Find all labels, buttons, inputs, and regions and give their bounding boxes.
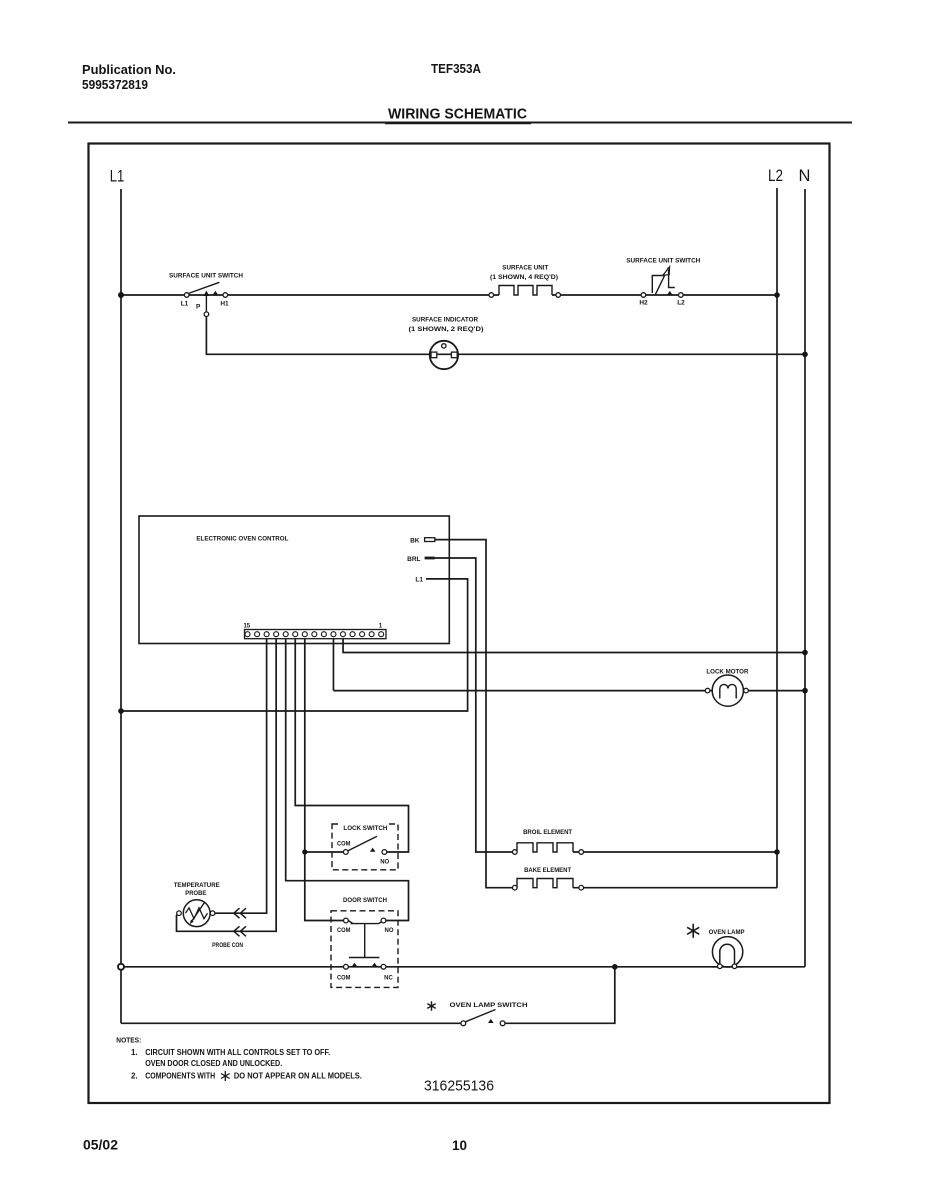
svg-text:H1: H1 <box>220 301 229 308</box>
svg-text:COM: COM <box>337 928 351 934</box>
wire through oven lamp <box>712 966 743 968</box>
svg-text:L1: L1 <box>110 168 125 186</box>
wire pin6 lock motor row <box>332 639 334 691</box>
svg-text:CIRCUIT SHOWN WITH ALL CONTROL: CIRCUIT SHOWN WITH ALL CONTROLS SET TO O… <box>145 1048 330 1057</box>
lock switch dashed enclosure <box>332 824 398 870</box>
svg-text:OVEN LAMP: OVEN LAMP <box>709 929 746 936</box>
terminal BK spade <box>425 538 435 542</box>
terminal left of broil element <box>513 850 518 855</box>
svg-text:WIRING SCHEMATIC: WIRING SCHEMATIC <box>388 107 527 123</box>
svg-text:10: 10 <box>452 1137 467 1153</box>
wire pin9 branch to lock switch COM <box>305 851 346 853</box>
terminal strip of EOC <box>245 630 387 639</box>
door switch lower contact triangle left <box>352 963 358 967</box>
terminal right of bake element <box>579 885 584 890</box>
door switch dashed enclosure <box>331 911 398 988</box>
wire L1 feed from rail <box>121 579 468 711</box>
svg-text:L2: L2 <box>768 167 783 185</box>
surface unit heating element <box>499 286 552 296</box>
terminal BRL spade <box>425 557 435 560</box>
wire broil element to L2 <box>573 851 777 853</box>
svg-text:5995372819: 5995372819 <box>82 77 148 92</box>
lock switch arm <box>348 836 377 850</box>
terminal right of broil element <box>579 850 584 855</box>
probe connector chevrons top <box>234 908 246 918</box>
electronic oven control box U1 <box>139 516 449 644</box>
lock motor m winding <box>720 684 736 698</box>
wire BRL to broil element <box>435 558 513 852</box>
probe connector chevrons bottom <box>234 926 246 936</box>
node lock/door COM junction <box>302 849 307 854</box>
terminal COM of lock switch <box>343 850 348 855</box>
door switch lower contact triangle right <box>372 963 378 967</box>
header rule <box>68 122 852 124</box>
terminal left of bake element <box>513 885 518 890</box>
svg-text:H2: H2 <box>639 300 648 307</box>
svg-text:SURFACE INDICATOR: SURFACE INDICATOR <box>412 317 478 324</box>
wire oven lamp switch to lamp row <box>503 967 615 1024</box>
terminal strip pins <box>245 632 384 637</box>
wire pin5 to N <box>343 639 805 653</box>
svg-text:Publication No.: Publication No. <box>82 62 176 77</box>
wire L2 rail <box>776 188 778 888</box>
node L1 oven-control feed junction <box>118 708 124 714</box>
svg-text:L2: L2 <box>677 300 685 307</box>
svg-text:L1: L1 <box>181 301 189 308</box>
svg-text:SURFACE UNIT SWITCH: SURFACE UNIT SWITCH <box>626 258 700 265</box>
temperature probe arrow <box>192 903 205 922</box>
oven lamp switch asterisk <box>431 1001 433 1011</box>
svg-text:SURFACE UNIT: SURFACE UNIT <box>502 265 548 272</box>
node L2 row1 junction <box>774 292 780 298</box>
door switch upper contact left tick <box>348 921 353 924</box>
terminal P of S1 <box>204 312 209 317</box>
wire BK to bake element <box>435 540 513 888</box>
svg-text:COMPONENTS WITH: COMPONENTS WITH <box>145 1071 215 1080</box>
switch S2 contact triangle <box>667 291 673 295</box>
wire pin12 to probe return <box>177 639 277 932</box>
svg-text:OVEN DOOR CLOSED AND UNLOCKED.: OVEN DOOR CLOSED AND UNLOCKED. <box>145 1059 282 1068</box>
note 2 asterisk <box>224 1071 226 1081</box>
switch S1 arm <box>189 282 220 293</box>
svg-text:PROBE: PROBE <box>185 890 207 897</box>
svg-text:316255136: 316255136 <box>424 1077 494 1094</box>
terminal left of oven lamp <box>718 964 723 969</box>
terminal NO of door switch <box>381 918 386 923</box>
svg-text:NO: NO <box>385 928 394 934</box>
svg-text:NO: NO <box>380 859 389 865</box>
node L2 broil junction <box>774 849 780 855</box>
oven lamp body E1 <box>712 937 742 967</box>
border frame of schematic <box>89 144 830 1104</box>
temperature probe body RT1 <box>183 900 210 927</box>
svg-text:DO NOT APPEAR ON ALL MODELS.: DO NOT APPEAR ON ALL MODELS. <box>234 1071 362 1080</box>
wire pin13 to probe <box>215 639 267 914</box>
surface indicator left contact square <box>431 352 437 358</box>
svg-text:NOTES:: NOTES: <box>116 1036 141 1045</box>
wire bake element to L2 <box>573 887 777 889</box>
terminal COM upper of door switch <box>344 918 349 923</box>
svg-text:COM: COM <box>337 842 351 848</box>
svg-text:P: P <box>196 304 201 311</box>
svg-text:05/02: 05/02 <box>83 1137 118 1153</box>
wire pin9 to door switch COM <box>305 639 346 921</box>
door switch upper contact right tick <box>379 921 384 924</box>
switch S2 diagonal arm <box>656 268 669 295</box>
svg-text:OVEN LAMP SWITCH: OVEN LAMP SWITCH <box>450 1002 528 1009</box>
terminal COM lower of door switch <box>344 964 349 969</box>
wire pin11 to door switch NO <box>286 639 409 921</box>
oven lamp switch arm <box>465 1010 495 1022</box>
svg-text:N: N <box>799 167 811 185</box>
terminal right of lock motor <box>744 688 749 693</box>
switch S2 bracket <box>652 276 664 294</box>
temperature probe resistor zigzag <box>186 908 208 919</box>
node N lock motor row junction <box>802 688 808 694</box>
svg-text:TEF353A: TEF353A <box>431 61 482 76</box>
wire N rail <box>804 189 806 967</box>
terminal right of probe <box>210 911 215 916</box>
node L1 bottom row ring <box>118 964 124 970</box>
wire L1 rail to oven lamp switch <box>121 1022 463 1024</box>
svg-text:BROIL ELEMENT: BROIL ELEMENT <box>523 829 572 836</box>
switch S1 contact triangle <box>213 291 219 295</box>
terminal left of lock motor <box>705 688 710 693</box>
svg-text:(1 SHOWN, 4 REQ'D): (1 SHOWN, 4 REQ'D) <box>490 274 558 281</box>
svg-text:BK: BK <box>410 538 420 545</box>
wire main bottom row L1 to N <box>121 966 805 968</box>
terminal right of oven lamp switch <box>500 1021 505 1026</box>
terminal NC of door switch <box>381 964 386 969</box>
svg-text:NC: NC <box>384 976 393 982</box>
svg-text:1.: 1. <box>131 1048 138 1057</box>
wire L1 rail <box>120 189 122 1023</box>
svg-text:15: 15 <box>243 624 250 630</box>
svg-text:DOOR SWITCH: DOOR SWITCH <box>343 898 387 904</box>
svg-text:COM: COM <box>337 976 351 982</box>
surface indicator right contact square <box>451 352 457 358</box>
switch S1 wiper arrow shaft <box>205 294 207 313</box>
node L1 row1 junction <box>118 292 124 298</box>
terminal right of oven lamp <box>732 964 737 969</box>
svg-text:TEMPERATURE: TEMPERATURE <box>174 882 221 889</box>
terminal L2 of S2 <box>679 293 684 298</box>
svg-text:2.: 2. <box>131 1071 138 1080</box>
oven lamp switch contact triangle <box>488 1019 494 1023</box>
terminal NO of lock switch <box>382 850 387 855</box>
bake element heater <box>517 879 573 888</box>
wire surface-unit row left <box>121 294 499 296</box>
surface indicator inner circle <box>442 344 446 348</box>
node N indicator row junction <box>802 352 808 358</box>
wire pin10 to lock switch NO <box>295 639 408 852</box>
svg-text:(1 SHOWN, 2 REQ'D): (1 SHOWN, 2 REQ'D) <box>409 326 484 333</box>
oven lamp filament loop <box>720 944 735 964</box>
svg-text:SURFACE UNIT SWITCH: SURFACE UNIT SWITCH <box>169 273 243 280</box>
node lamp switch junction <box>612 964 618 970</box>
door switch upper contact bar <box>351 923 379 925</box>
terminal H1 of S1 <box>223 293 228 298</box>
lock switch contact triangle <box>370 848 376 852</box>
svg-text:ELECTRONIC OVEN CONTROL: ELECTRONIC OVEN CONTROL <box>196 536 288 543</box>
broil element heater <box>517 843 573 852</box>
switch S1 wiper arrowhead <box>204 291 210 296</box>
terminal H2 of S2 <box>641 293 646 298</box>
terminal left of probe <box>177 911 182 916</box>
lock motor M1 body <box>712 675 743 706</box>
switch S2 hollow arrowhead <box>663 267 670 276</box>
terminal right of surface unit <box>556 293 561 298</box>
switch S2 step contact <box>669 270 675 288</box>
svg-text:PROBE CON: PROBE CON <box>212 942 243 949</box>
wire P drop and surface-indicator row <box>206 314 805 354</box>
surface indicator lamp body <box>430 341 458 369</box>
svg-text:L1: L1 <box>415 577 423 584</box>
wire surface-unit row right <box>552 294 777 296</box>
svg-text:BRL: BRL <box>407 556 420 563</box>
lock switch label background <box>341 822 389 832</box>
svg-text:LOCK SWITCH: LOCK SWITCH <box>343 826 387 832</box>
terminal left of oven lamp switch <box>461 1021 466 1026</box>
door switch plunger shaft <box>364 924 366 958</box>
svg-text:BAKE ELEMENT: BAKE ELEMENT <box>524 867 571 874</box>
door switch plunger bar <box>349 957 380 959</box>
oven lamp asterisk <box>692 924 694 938</box>
node N pin5 row junction <box>802 650 808 656</box>
terminal L1 of S1 <box>184 293 189 298</box>
terminal left of surface unit <box>489 293 494 298</box>
